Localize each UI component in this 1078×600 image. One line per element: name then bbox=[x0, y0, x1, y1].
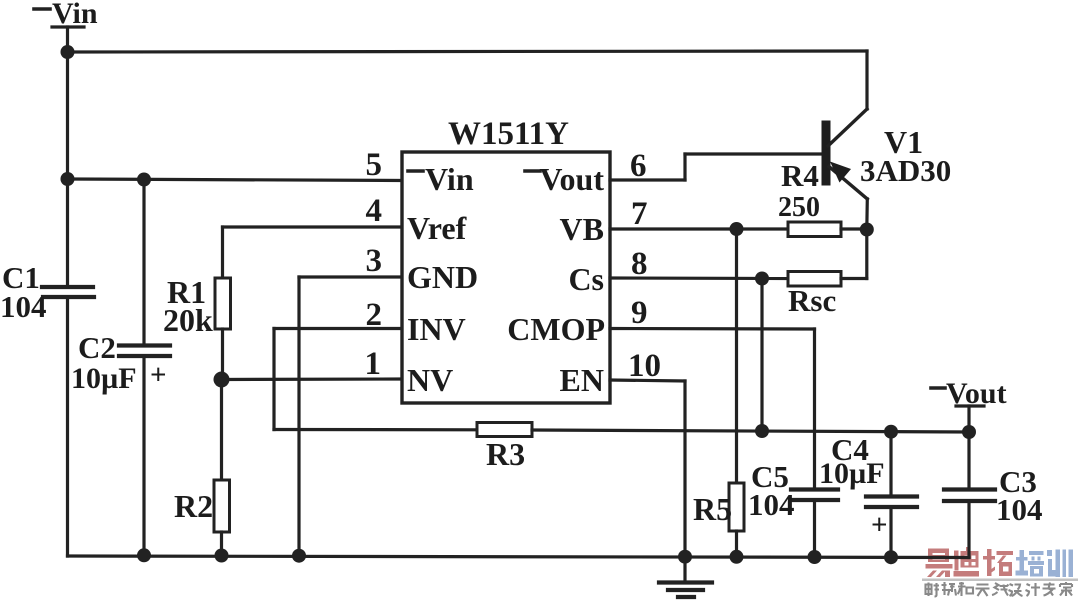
wire C1 bottom to ground rail bbox=[66, 299, 69, 556]
pin label EN bbox=[560, 362, 604, 398]
resistor R2 bbox=[214, 480, 230, 532]
label C4 bbox=[831, 432, 869, 467]
node junction dot R1/R2/NV bbox=[214, 372, 230, 388]
node junction dot -Vout on rail bbox=[962, 425, 976, 439]
label W1511Y bbox=[448, 116, 569, 152]
wire ground rail (bottom) bbox=[68, 556, 970, 558]
node junction dot GND wire on rail bbox=[292, 549, 306, 563]
svg-text:R4: R4 bbox=[781, 158, 819, 193]
svg-text:Vin: Vin bbox=[425, 161, 474, 197]
wire R2 bottom to ground rail bbox=[220, 532, 223, 556]
wire minus of -Vout bbox=[931, 386, 945, 390]
label 250 (R4) bbox=[778, 192, 820, 223]
svg-text:10: 10 bbox=[628, 348, 661, 384]
svg-text:Vout: Vout bbox=[539, 161, 604, 197]
node -Vin terminal bbox=[52, 27, 84, 52]
label 104 (C5) bbox=[748, 487, 795, 522]
svg-text:10µF: 10µF bbox=[819, 457, 885, 490]
node -Vout terminal bbox=[956, 406, 984, 432]
label 20k (R1) bbox=[163, 302, 213, 338]
label 10µF (C2) bbox=[71, 362, 137, 395]
watermark logo char 1 (red) bbox=[926, 549, 953, 578]
node junction dot Cs tap bbox=[755, 272, 769, 286]
node junction dot emitter node bbox=[860, 223, 874, 237]
wire pin 6 -Vout to transistor base bbox=[610, 154, 821, 180]
label R1 bbox=[167, 274, 206, 310]
wire C2 bottom lead bbox=[142, 358, 145, 556]
capacitor C4 bbox=[866, 497, 917, 508]
svg-text:R2: R2 bbox=[174, 488, 213, 524]
svg-text:R5: R5 bbox=[693, 491, 732, 527]
label R4 bbox=[781, 158, 819, 193]
svg-text:Cs: Cs bbox=[568, 261, 604, 297]
wire pin 4 Vref bbox=[223, 227, 403, 278]
label R3 bbox=[486, 436, 525, 472]
svg-text:CMOP: CMOP bbox=[507, 311, 605, 347]
pin number 9 bbox=[631, 295, 648, 331]
node junction dot at -Vin / pin5 branch bbox=[61, 172, 75, 186]
pin number 5 bbox=[366, 147, 383, 183]
svg-text:+: + bbox=[150, 359, 167, 391]
wire pin 10 EN bbox=[610, 380, 685, 556]
svg-text:Vin: Vin bbox=[52, 0, 98, 30]
IC U1 W1511Y body bbox=[402, 152, 610, 403]
label C2 bbox=[78, 330, 116, 365]
pin number 8 bbox=[631, 246, 648, 282]
wire node to R2 top bbox=[220, 380, 223, 481]
wire R5 bottom to ground rail bbox=[735, 531, 738, 557]
node junction dot C5 on rail bbox=[808, 550, 822, 564]
node junction dot R5 on rail bbox=[730, 550, 744, 564]
resistor R5 bbox=[729, 483, 744, 531]
resistor R1 bbox=[215, 278, 231, 329]
svg-text:4: 4 bbox=[366, 193, 383, 229]
svg-text:+: + bbox=[871, 509, 888, 541]
node junction dot C2 tap bbox=[137, 173, 151, 187]
node junction dot R2 on rail bbox=[215, 549, 229, 563]
wire minus of pin6 label bbox=[525, 169, 540, 173]
resistor Rsc bbox=[788, 272, 841, 287]
svg-text:1: 1 bbox=[365, 346, 382, 382]
svg-text:C2: C2 bbox=[78, 330, 116, 365]
transistor V1 base bar bbox=[822, 121, 831, 186]
label C1 bbox=[2, 260, 40, 295]
transistor V1 emitter arrow bbox=[830, 162, 851, 183]
wire C5 bottom to ground rail bbox=[813, 502, 816, 557]
pin number 1 bbox=[365, 346, 382, 382]
resistor R4 bbox=[788, 222, 841, 237]
wire pin 8 Cs bbox=[610, 276, 788, 280]
pin label NV bbox=[407, 362, 453, 398]
pin number 7 bbox=[631, 196, 648, 232]
watermark logo char 5 (blue) bbox=[1047, 550, 1073, 578]
label Rsc bbox=[788, 283, 836, 318]
label C3 bbox=[999, 464, 1037, 499]
pin number 6 bbox=[630, 148, 647, 184]
label R2 bbox=[174, 488, 213, 524]
node junction dot VB/R4/R5 bbox=[730, 222, 744, 236]
svg-text:104: 104 bbox=[748, 487, 795, 522]
wire pin 2 INV bbox=[274, 329, 402, 430]
pin number 4 bbox=[366, 193, 383, 229]
watermark logo char 4 (blue) bbox=[1016, 550, 1045, 577]
svg-text:Vref: Vref bbox=[407, 210, 467, 246]
capacitor C5 bbox=[791, 490, 838, 501]
wire minus of pin5 label bbox=[408, 169, 423, 173]
svg-text:GND: GND bbox=[407, 259, 478, 295]
watermark slogan (gray chinese text) bbox=[926, 582, 1073, 597]
label -Vout bbox=[946, 377, 1007, 410]
wire emitter lead of V1 bbox=[829, 167, 867, 230]
svg-text:10µF: 10µF bbox=[71, 362, 137, 395]
svg-text:NV: NV bbox=[407, 362, 453, 398]
label -Vin (top-left) bbox=[52, 0, 98, 30]
svg-text:7: 7 bbox=[631, 196, 648, 232]
wire pin 9 CMOP to C5 bbox=[610, 329, 815, 488]
wire Cs vertical to output rail bbox=[760, 279, 763, 432]
wire R1 bottom to node bbox=[221, 329, 224, 379]
svg-text:INV: INV bbox=[407, 311, 466, 347]
wire C4 bottom to ground rail bbox=[889, 509, 892, 557]
wire left vertical from -Vin terminal to C1 top bbox=[66, 52, 69, 285]
pin number 2 bbox=[366, 297, 383, 333]
label + polarity (C2) bbox=[150, 359, 167, 391]
wire top rail bbox=[68, 51, 868, 52]
wire C3 top lead bbox=[967, 432, 970, 488]
svg-text:Vout: Vout bbox=[946, 377, 1007, 410]
label + polarity (C4) bbox=[871, 509, 888, 541]
svg-text:250: 250 bbox=[778, 192, 820, 223]
svg-text:5: 5 bbox=[366, 147, 383, 183]
label V1 bbox=[884, 124, 923, 160]
node junction dot C4 on output rail bbox=[884, 425, 898, 439]
wire VB node down to R5 bbox=[735, 229, 738, 483]
pin label -Vout (pin 6) bbox=[539, 161, 604, 197]
pin label INV bbox=[407, 311, 466, 347]
wire minus sign of -Vin bbox=[34, 7, 50, 11]
wire collector lead of V1 bbox=[828, 51, 867, 146]
node junction dot EN on rail bbox=[678, 550, 692, 564]
svg-text:3AD30: 3AD30 bbox=[860, 153, 951, 188]
svg-text:104: 104 bbox=[0, 289, 47, 324]
pin label Vref bbox=[407, 210, 467, 246]
wire pin 1 NV bbox=[222, 377, 403, 381]
pin label VB bbox=[560, 211, 604, 247]
ground symbol bbox=[659, 557, 712, 597]
wire pin 3 GND bbox=[299, 277, 402, 556]
wire feedback line to R3 bbox=[274, 428, 477, 431]
pin label GND bbox=[407, 259, 478, 295]
svg-text:Rsc: Rsc bbox=[788, 283, 836, 318]
node junction dot C2 on rail bbox=[137, 548, 151, 562]
svg-text:104: 104 bbox=[996, 492, 1043, 527]
svg-text:2: 2 bbox=[366, 297, 383, 333]
wire output rail from R3 to -Vout node bbox=[532, 430, 969, 432]
pin number 3 bbox=[366, 243, 383, 279]
wire C4 top lead bbox=[889, 432, 892, 495]
label 3AD30 bbox=[860, 153, 951, 188]
svg-text:20k: 20k bbox=[163, 302, 213, 338]
pin label Cs bbox=[568, 261, 604, 297]
svg-text:R3: R3 bbox=[486, 436, 525, 472]
wire Rsc right up to emitter node bbox=[841, 230, 867, 279]
wire C2 top lead bbox=[142, 180, 145, 344]
wire R4 right to emitter node bbox=[841, 227, 867, 230]
capacitor C3 bbox=[944, 490, 995, 502]
pin label CMOP bbox=[507, 311, 605, 347]
svg-text:W1511Y: W1511Y bbox=[448, 116, 569, 152]
capacitor C1 bbox=[42, 287, 94, 297]
node junction dot Cs on output rail bbox=[755, 424, 769, 438]
label C5 bbox=[751, 459, 789, 494]
wire pin 7 VB bbox=[610, 227, 788, 230]
resistor R3 bbox=[477, 423, 532, 437]
wire C3 bottom to ground rail bbox=[967, 503, 970, 558]
svg-text:EN: EN bbox=[560, 362, 604, 398]
watermark logo char 3 (red) bbox=[983, 549, 1013, 576]
label 10µF (C4) bbox=[819, 457, 885, 490]
svg-text:VB: VB bbox=[560, 211, 604, 247]
svg-text:9: 9 bbox=[631, 295, 648, 331]
svg-text:3: 3 bbox=[366, 243, 383, 279]
watermark divider line bbox=[922, 579, 1078, 582]
pin label -Vin (pin 5) bbox=[425, 161, 474, 197]
pin number 10 bbox=[628, 348, 661, 384]
node junction dot top-left bbox=[61, 45, 75, 59]
watermark logo char 2 (red) bbox=[954, 547, 980, 577]
label R5 bbox=[693, 491, 732, 527]
node junction dot C4 on rail bbox=[884, 550, 898, 564]
label 104 (C3) bbox=[996, 492, 1043, 527]
label 104 (C1) bbox=[0, 289, 47, 324]
wire pin 5 (-Vin to IC) bbox=[68, 179, 403, 181]
capacitor C2 bbox=[119, 346, 170, 357]
